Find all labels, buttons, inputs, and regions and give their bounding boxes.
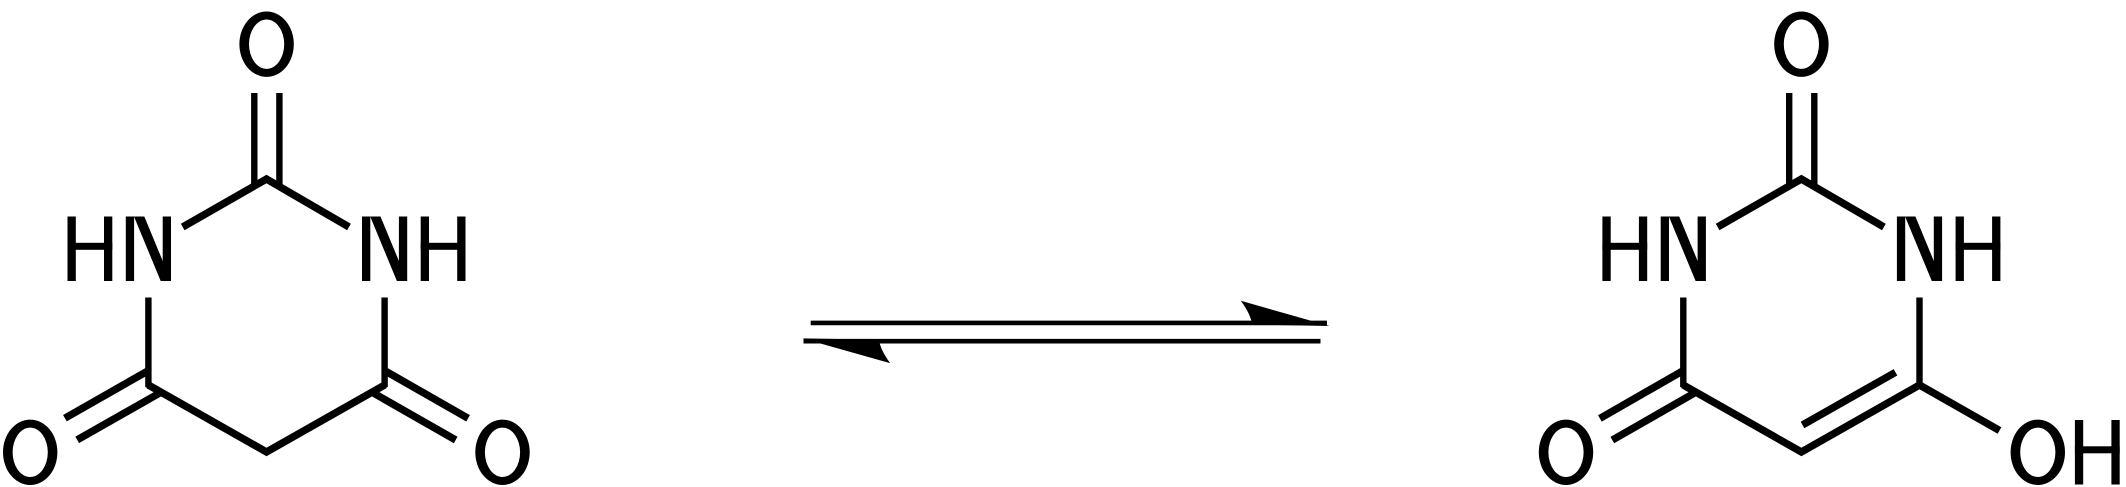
- atom label O (bottom left, enol): [1539, 420, 1593, 485]
- atom label HN (left, keto): [68, 217, 76, 282]
- enol form ring bonds N1-C6, C6-C5, C5-C4, C4-N3: [1683, 298, 1919, 453]
- atom label O (bottom right, keto): [475, 420, 529, 485]
- equilibrium arrow, forward (top) shaft: [811, 321, 1327, 326]
- atom label NH (right, enol): [1897, 217, 1905, 282]
- keto form ring bonds N1-C6, C6-C5, C5-C4, C4-N3: [148, 298, 384, 453]
- equilibrium arrow, reverse (bottom) harpoon head: [802, 338, 890, 363]
- enol form double bond C2=O (top): [1786, 93, 1792, 186]
- enol form ring bonds C6-C5, C5-C4 (diagonal overlay): [1683, 385, 1919, 452]
- equilibrium arrow, forward (top) harpoon head: [1241, 301, 1330, 326]
- atom label O (bottom left, keto): [3, 420, 57, 485]
- enol form double bond C6=O (bottom left): [1600, 371, 1683, 419]
- enol form inner line of C4=C5 double bond: [1803, 372, 1896, 425]
- keto form bonds N1-C2-N3: [183, 179, 349, 227]
- enol form bonds N1-C2-N3: [1718, 179, 1884, 227]
- keto form double bond C6=O (bottom left): [65, 371, 148, 419]
- atom label OH (bottom right, enol): [2011, 420, 2065, 485]
- atom label O (top, enol): [1774, 12, 1828, 77]
- keto form double bond C2=O (top): [251, 93, 257, 186]
- enol form bond C4-OH: [1920, 385, 2000, 431]
- keto form double bond C4=O (bottom right): [372, 392, 456, 440]
- equilibrium arrow, reverse (bottom) shaft: [804, 339, 1321, 344]
- keto form ring bonds C6-C5, C5-C4 (diagonal overlay): [148, 385, 384, 452]
- atom label O (top, keto): [239, 12, 293, 77]
- atom label NH (right, keto): [362, 217, 370, 282]
- atom label HN (left, enol): [1602, 217, 1610, 282]
